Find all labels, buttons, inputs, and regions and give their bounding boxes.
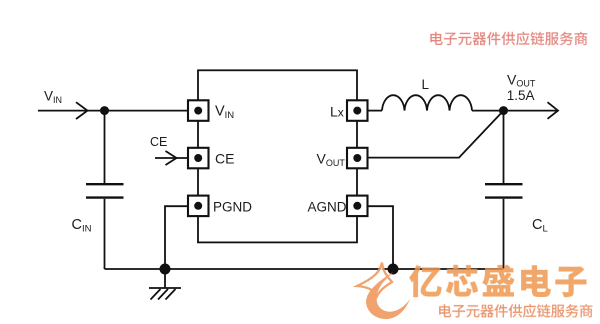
capacitor CL bbox=[485, 184, 523, 197]
wire VOUT feedback diagonal bbox=[368, 111, 504, 158]
pin CE bbox=[188, 148, 209, 169]
pin Lx bbox=[347, 100, 368, 121]
pin AGND bbox=[347, 196, 368, 217]
watermark top-right text bbox=[430, 32, 587, 46]
pin VOUT bbox=[347, 148, 368, 169]
svg-text:Lx: Lx bbox=[330, 103, 344, 119]
wire PGND to ground bbox=[165, 206, 188, 269]
svg-text:CE: CE bbox=[150, 135, 167, 149]
inductor L bbox=[382, 95, 472, 110]
wire Lx to inductor bbox=[368, 110, 382, 112]
node ground junction bbox=[160, 264, 171, 275]
svg-text:L: L bbox=[422, 77, 430, 92]
wire CE input bbox=[155, 157, 188, 159]
svg-text:1.5A: 1.5A bbox=[507, 88, 535, 103]
svg-text:VIN: VIN bbox=[44, 89, 62, 106]
capacitor CIN bbox=[86, 184, 124, 197]
node output junction bbox=[499, 106, 508, 115]
svg-text:VOUT: VOUT bbox=[507, 71, 536, 88]
wire CIN top bbox=[104, 111, 106, 184]
output arrowhead bbox=[548, 102, 559, 119]
wire CIN bottom bbox=[104, 199, 106, 269]
svg-text:AGND: AGND bbox=[308, 200, 347, 215]
watermark logo star bbox=[357, 263, 410, 320]
CE input arrowhead bbox=[166, 151, 177, 165]
wire ground rail bbox=[105, 268, 504, 270]
node AGND rail junction bbox=[388, 264, 399, 275]
wire CL top bbox=[503, 111, 505, 184]
wire VIN input bbox=[38, 110, 188, 112]
watermark big text bbox=[409, 265, 586, 298]
svg-text:CIN: CIN bbox=[72, 217, 92, 234]
wire AGND to rail bbox=[368, 206, 393, 269]
VIN input arrowhead bbox=[76, 102, 88, 119]
wire CL bottom bbox=[503, 199, 505, 269]
pin PGND bbox=[188, 196, 209, 217]
wire output arrow bbox=[504, 110, 558, 112]
node VIN input junction bbox=[100, 106, 109, 115]
IC U1 body bbox=[198, 70, 357, 242]
svg-text:CL: CL bbox=[532, 217, 548, 234]
ground symbol bbox=[149, 269, 181, 300]
svg-text:CE: CE bbox=[215, 150, 234, 166]
svg-text:PGND: PGND bbox=[213, 200, 252, 215]
wire inductor to output node bbox=[472, 110, 503, 112]
watermark bottom small text bbox=[439, 304, 592, 318]
pin VIN bbox=[188, 100, 209, 121]
